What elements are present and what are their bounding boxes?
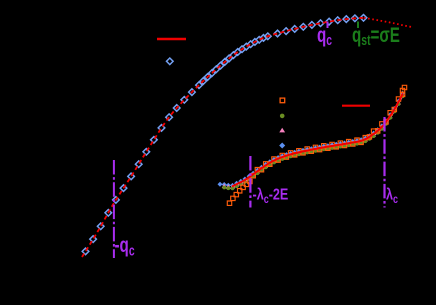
inset series: pink line <box>232 95 403 188</box>
svg-text:qst=σE: qst=σE <box>352 22 400 48</box>
main legend: blue diamond sample <box>167 58 174 65</box>
main legend: red dashed-line sample <box>157 38 186 41</box>
inset legend: olive circle sample <box>280 114 285 119</box>
svg-text:-λc-2E: -λc-2E <box>253 186 289 206</box>
red dotted continuation of sigma-E curve <box>364 18 413 28</box>
inset legend: red line sample <box>342 105 370 107</box>
inset legend: pink triangle sample <box>279 128 285 133</box>
main data series: blue open diamond markers (q vs E) <box>82 15 367 255</box>
inset series: red solid fit line <box>232 94 403 187</box>
inset series: blue filled diamonds <box>218 91 406 188</box>
main fit: red dashed curve <box>82 18 364 257</box>
inset purple dash-dot line at lambda_c <box>383 117 385 208</box>
inset purple dash-dot line at -lambda_c-2E <box>249 156 251 208</box>
inset legend: blue diamond sample <box>279 143 285 149</box>
purple vertical dash-dot marker line at E = -qc <box>113 160 115 258</box>
purple tick above qc label <box>327 22 329 29</box>
inset legend: orange square sample <box>280 98 285 103</box>
inset series: orange open squares <box>227 85 406 205</box>
green tick above qst label <box>357 22 359 29</box>
inset series: olive filled circles <box>222 94 404 190</box>
inset series: pink filled triangles <box>222 92 405 189</box>
